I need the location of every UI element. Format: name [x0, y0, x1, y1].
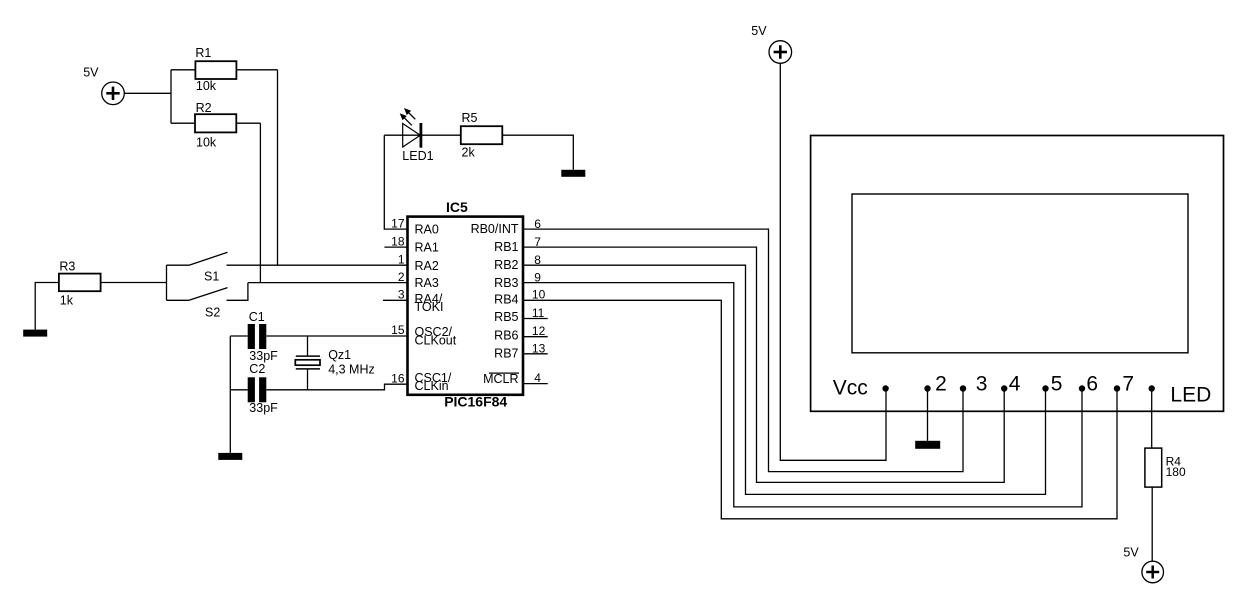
wire pin 4 stub (MCLR): [523, 383, 548, 385]
resistor R5: [461, 126, 503, 144]
capacitor C1: [248, 324, 267, 349]
node display pin 2: [924, 385, 930, 391]
svg-text:10k: 10k: [196, 79, 217, 93]
svg-text:R5: R5: [462, 111, 478, 125]
svg-text:1: 1: [398, 253, 405, 267]
node display pin 3: [960, 385, 966, 391]
resistor R2: [195, 114, 236, 132]
wire RB3 (pin 9) to display pin 6: [523, 283, 1082, 507]
ground (display pin 2): [915, 389, 940, 449]
svg-text:5V: 5V: [751, 24, 767, 38]
svg-text:R3: R3: [59, 260, 75, 274]
wire LED1 anode down to IC pin 17: [384, 135, 408, 229]
pin names left (RA0..RA4/TOKI, OSC2/CLKout, CSC1/CLKin): [415, 223, 457, 394]
switch S1: [167, 252, 228, 265]
svg-text:2k: 2k: [462, 146, 476, 160]
resistor R4: [1145, 448, 1162, 487]
svg-text:LED: LED: [1170, 384, 1211, 407]
wire RB0 (pin 6) to display pin 3: [523, 229, 963, 472]
wire S2 to IC pin 2 (RA3 row): [248, 282, 408, 284]
wire node vertical R1/R2 split: [170, 70, 172, 123]
wire S2 throw jog: [227, 283, 248, 301]
node display pin Vcc: [882, 385, 888, 391]
resistor R3: [59, 274, 101, 292]
svg-text:PIC16F84: PIC16F84: [444, 394, 507, 410]
pin numbers right (6,7,8,9,10,11,12,13,4): [532, 217, 546, 385]
wire ground to R3: [35, 283, 59, 330]
wire C1 left: [230, 335, 247, 337]
svg-text:LED1: LED1: [402, 149, 433, 163]
IC U1 IC5 PIC16F84 body: [408, 217, 524, 395]
ground (R5): [561, 170, 585, 177]
wire display LED pin to R4: [1151, 389, 1153, 449]
pin names right (RB0/INT..RB7): [471, 222, 519, 360]
wire R2 output: [236, 122, 260, 124]
svg-text:6: 6: [1086, 373, 1098, 396]
svg-text:7: 7: [1122, 373, 1134, 396]
wire C2 left: [230, 389, 247, 391]
wire pin 13 stub (RB7): [523, 353, 548, 355]
wire R3 to switches: [101, 282, 167, 284]
node display pin LED: [1149, 385, 1155, 391]
svg-text:C2: C2: [249, 362, 265, 376]
wire pin 12 stub (RB6): [523, 336, 548, 338]
ground (C2): [218, 453, 242, 460]
svg-text:5V: 5V: [83, 66, 99, 80]
power supply V2 5V (top): [769, 41, 792, 64]
svg-text:17: 17: [391, 217, 405, 231]
node display pin 7: [1114, 385, 1120, 391]
wire R1 output: [236, 69, 277, 71]
svg-text:5V: 5V: [1123, 546, 1139, 560]
svg-text:16: 16: [391, 371, 405, 385]
svg-text:2: 2: [398, 270, 405, 284]
pin name MCLR with overline: [483, 372, 519, 386]
svg-text:S1: S1: [204, 270, 219, 284]
svg-text:RB2: RB2: [494, 258, 518, 272]
svg-text:CLKout: CLKout: [415, 333, 457, 347]
svg-text:RB0/INT: RB0/INT: [471, 222, 519, 236]
switch S2: [167, 288, 228, 301]
wire node to R2: [171, 122, 195, 124]
svg-text:TOKI: TOKI: [415, 300, 444, 314]
svg-text:33pF: 33pF: [249, 349, 278, 363]
svg-text:R1: R1: [195, 46, 211, 60]
svg-text:1k: 1k: [60, 293, 74, 307]
wire C2 to pin 16 jog: [266, 384, 408, 390]
svg-text:180: 180: [1166, 465, 1186, 479]
wire R2 down to RA3 row: [259, 123, 261, 282]
svg-text:IC5: IC5: [446, 199, 468, 215]
svg-text:RA0: RA0: [415, 223, 439, 237]
svg-text:10: 10: [532, 287, 546, 301]
wire pin 11 stub (RB5): [523, 318, 548, 320]
wire R4 to V3: [1151, 487, 1153, 561]
svg-text:RB6: RB6: [494, 329, 518, 343]
svg-text:RA1: RA1: [415, 241, 439, 255]
svg-text:RB3: RB3: [494, 276, 518, 290]
wire caps common vertical: [229, 336, 231, 453]
LED LED1: [400, 108, 421, 148]
svg-text:18: 18: [391, 235, 405, 249]
pin numbers left (17,18,1,2,3,15,16): [391, 217, 405, 386]
svg-text:33pF: 33pF: [249, 401, 278, 415]
svg-text:Vcc: Vcc: [833, 377, 868, 400]
wire node to R1: [171, 69, 195, 71]
wire R5 to ground: [502, 135, 573, 170]
svg-text:CLKin: CLKin: [415, 379, 449, 393]
wire RB2 (pin 8) to display pin 5: [523, 265, 1046, 494]
svg-text:MCLR: MCLR: [483, 372, 518, 386]
svg-text:15: 15: [391, 323, 405, 337]
wire pin 3 stub (RA4): [383, 299, 408, 301]
svg-text:3: 3: [398, 288, 405, 302]
svg-text:S2: S2: [205, 306, 220, 320]
ground (R3): [23, 330, 47, 337]
wire LED1 row: [384, 134, 461, 136]
wire S1 throw to IC pin 1 (RA2 row): [227, 264, 409, 266]
node display pin 5: [1042, 385, 1048, 391]
svg-text:2: 2: [935, 373, 947, 396]
node display pin 6: [1079, 385, 1085, 391]
svg-text:Qz1: Qz1: [328, 348, 351, 362]
capacitor C2: [248, 377, 267, 402]
wire pin 18 stub (RA1): [384, 246, 408, 248]
svg-text:3: 3: [976, 373, 988, 396]
wire V1 output to node: [124, 92, 171, 94]
svg-text:RB4: RB4: [494, 292, 518, 306]
svg-text:RA3: RA3: [415, 276, 439, 290]
svg-text:10k: 10k: [196, 135, 217, 149]
svg-text:RB7: RB7: [494, 346, 518, 360]
LED display module outer box: [811, 136, 1224, 412]
svg-text:R2: R2: [196, 101, 212, 115]
labels display pins 2-7: [935, 373, 1134, 396]
svg-text:RA2: RA2: [415, 259, 439, 273]
svg-text:RB1: RB1: [494, 240, 518, 254]
svg-text:4,3 MHz: 4,3 MHz: [328, 362, 375, 376]
wire C1 to IC pin 15 (OSC2 row): [266, 335, 408, 337]
wire R1 down to RA2 row: [277, 70, 279, 265]
wire switch pole vertical: [166, 265, 168, 300]
svg-text:C1: C1: [249, 310, 265, 324]
node display pin 4: [1001, 385, 1007, 391]
wire RB1 (pin 7) to display pin 4: [523, 247, 1004, 482]
power supply V1 5V (top-left): [102, 82, 125, 105]
wire RB4 (pin 10) to display pin 7: [523, 300, 1117, 519]
svg-text:4: 4: [1009, 373, 1021, 396]
svg-text:5: 5: [1051, 373, 1063, 396]
power supply V3 5V (bottom-right): [1142, 561, 1164, 583]
svg-text:RB5: RB5: [494, 310, 518, 324]
LED display screen inner box: [852, 194, 1188, 353]
wire V2 to display Vcc pin: [780, 63, 886, 460]
crystal Qz1: [295, 336, 320, 390]
resistor R1: [195, 61, 236, 79]
